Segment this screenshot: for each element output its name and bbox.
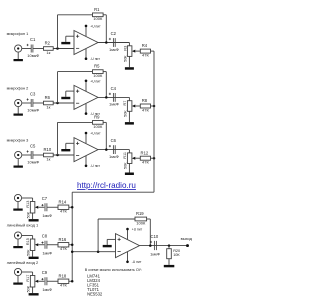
wire R14 to bus xyxy=(69,206,72,208)
svg-text:100К: 100К xyxy=(93,16,103,21)
svg-text:10мкФ: 10мкФ xyxy=(27,159,39,164)
ground bar under R20 xyxy=(164,265,175,267)
output node ch3 xyxy=(105,148,108,151)
svg-text:47К: 47К xyxy=(60,209,67,214)
svg-text:C1: C1 xyxy=(30,37,36,42)
DA3 plus input marker xyxy=(76,142,79,145)
resistor R20 body xyxy=(167,249,172,259)
bus horizontal under URL xyxy=(72,191,154,193)
DA2 plus input marker xyxy=(76,90,79,93)
wire non-inverting input ch2 xyxy=(66,90,74,92)
potentiometer R11 body xyxy=(127,153,131,164)
wire R6 to op-amp inverting input xyxy=(53,102,74,104)
DA4 plus input marker xyxy=(118,238,121,241)
svg-text:50К: 50К xyxy=(26,285,30,292)
DA1 +U node xyxy=(85,25,88,28)
DA3 negative supply pin xyxy=(85,156,87,166)
line-input bus vertical xyxy=(71,192,73,281)
resistor R12 xyxy=(140,156,150,160)
resistor R8 xyxy=(140,104,150,108)
wire R15 bottom to ground xyxy=(32,251,34,257)
feedback top wire ch1 xyxy=(58,14,93,16)
wire линейный вход 2 to R15 xyxy=(22,235,33,237)
svg-text:C3: C3 xyxy=(30,92,36,97)
svg-text:47К: 47К xyxy=(142,107,149,112)
connector микрофон 1 xyxy=(15,45,22,52)
R11 wiper arrow xyxy=(132,157,135,160)
svg-text:47К: 47К xyxy=(60,246,67,251)
svg-text:R4: R4 xyxy=(142,43,148,48)
svg-text:C4: C4 xyxy=(111,86,117,91)
wire C8 to R16 xyxy=(47,244,58,246)
wire R11 bottom to ground xyxy=(128,164,130,173)
DA3 -U node xyxy=(85,165,88,168)
wire R8 to bus xyxy=(151,105,155,107)
op-amp DA2 xyxy=(74,85,98,109)
svg-text:R7: R7 xyxy=(123,101,127,106)
svg-text:выход: выход xyxy=(181,236,193,241)
svg-text:100К: 100К xyxy=(93,73,103,78)
C3 polarity plus xyxy=(27,98,29,100)
svg-text:1мкФ: 1мкФ xyxy=(42,251,52,256)
svg-text:R1: R1 xyxy=(94,7,100,12)
wire микрофон 1 to ground xyxy=(17,52,19,59)
C9 polarity plus xyxy=(41,278,43,280)
R17 wiper arrow xyxy=(35,280,38,283)
svg-text:NE5532: NE5532 xyxy=(87,292,103,297)
wire линейный вход 2 to ground xyxy=(17,239,19,246)
C10 polarity plus xyxy=(150,241,152,243)
C7 polarity plus xyxy=(41,204,43,206)
DA1 -U node xyxy=(85,57,88,60)
svg-text:R6: R6 xyxy=(45,95,51,100)
wire микрофон 3 to C5 xyxy=(22,154,31,156)
signal ground bar summing amp xyxy=(103,245,112,247)
wire R13 bottom to ground xyxy=(32,213,34,219)
resistor R1 xyxy=(93,13,104,17)
wire R10 to op-amp inverting input xyxy=(53,154,74,156)
svg-text:50К: 50К xyxy=(27,211,31,218)
svg-text:линейный вход 1: линейный вход 1 xyxy=(7,222,39,227)
bus junction ch2 xyxy=(153,105,156,108)
svg-text:микрофон 3: микрофон 3 xyxy=(7,137,29,142)
signal ground bar ch1 xyxy=(61,42,70,44)
output/feedback node xyxy=(149,244,152,247)
DA4 positive supply pin xyxy=(127,229,129,239)
wire down into R3 xyxy=(128,43,130,46)
wire to signal ground ch3 xyxy=(65,143,67,149)
wire to signal ground ch1 xyxy=(65,36,67,42)
wire линейный вход 1 to ground xyxy=(17,202,19,209)
C8 polarity plus xyxy=(41,242,43,244)
svg-text:R18: R18 xyxy=(59,273,67,278)
svg-text:В схеме можно использовать ОУ:: В схеме можно использовать ОУ: xyxy=(85,268,142,272)
svg-text:47К: 47К xyxy=(142,53,149,58)
wire R7 wiper to R8 xyxy=(135,105,140,107)
feedback wire up summing amp xyxy=(97,219,99,252)
DA2 +U node xyxy=(85,80,88,83)
svg-text:C7: C7 xyxy=(42,196,48,201)
capacitor C9 xyxy=(44,277,46,285)
svg-text:микрофон 2: микрофон 2 xyxy=(7,85,29,90)
output terminal xyxy=(186,244,189,247)
ground under линейный вход 1 xyxy=(13,209,22,211)
wire R17 wiper to C9 xyxy=(38,280,44,282)
node C10/R20 xyxy=(168,244,171,247)
mic summing bus vertical xyxy=(153,51,155,192)
ground under линейный вход 3 xyxy=(13,283,22,285)
wire линейный вход 3 to ground xyxy=(17,276,19,283)
wire R18 to bus xyxy=(69,280,72,282)
capacitor C3 xyxy=(30,99,32,107)
svg-text:R15: R15 xyxy=(26,238,30,245)
resistor R6 xyxy=(44,101,54,105)
wire C9 to R18 xyxy=(47,280,58,282)
op-amp DA1 xyxy=(74,31,98,55)
svg-text:R17: R17 xyxy=(26,275,30,282)
wire R5 to corner xyxy=(103,71,106,73)
wire non-inverting input ch3 xyxy=(66,142,74,144)
bus tee node xyxy=(71,250,74,253)
resistor R2 xyxy=(44,47,54,51)
wire R9 to corner xyxy=(103,121,106,123)
svg-text:R3: R3 xyxy=(123,46,127,51)
ground under микрофон 2 xyxy=(14,114,23,116)
output wire xyxy=(140,245,188,247)
R15 wiper arrow xyxy=(35,243,38,246)
svg-text:линейный вход 2: линейный вход 2 xyxy=(7,260,39,265)
summing wire to inverting input xyxy=(72,251,115,253)
wire линейный вход 3 to R17 xyxy=(22,271,33,273)
R13 wiper arrow xyxy=(35,206,38,209)
svg-text:R11: R11 xyxy=(123,152,127,159)
svg-text:R10: R10 xyxy=(44,147,52,152)
feedback wire down to output summing amp xyxy=(149,219,151,246)
connector микрофон 3 xyxy=(15,151,22,158)
connector линейный вход 2 xyxy=(14,232,21,239)
svg-text:47К: 47К xyxy=(60,283,67,288)
svg-text:R16: R16 xyxy=(59,237,67,242)
svg-text:R8: R8 xyxy=(142,98,148,103)
svg-text:1мкФ: 1мкФ xyxy=(109,47,119,52)
R3 wiper arrow xyxy=(132,50,135,53)
connector линейный вход 1 xyxy=(14,194,21,201)
DA1 negative supply pin xyxy=(85,49,87,59)
svg-text:10К: 10К xyxy=(173,253,180,257)
resistor R4 xyxy=(140,49,150,53)
wire R17 bottom to ground xyxy=(32,287,34,293)
capacitor C1 xyxy=(30,45,32,53)
potentiometer R15 body xyxy=(30,239,34,251)
svg-text:100К: 100К xyxy=(93,124,103,129)
svg-text:1мкФ: 1мкФ xyxy=(109,154,119,159)
connector микрофон 2 xyxy=(15,99,22,106)
potentiometer R13 body xyxy=(30,202,34,214)
capacitor C4 xyxy=(112,93,114,102)
wire down to R20 xyxy=(168,246,170,249)
wire R20 to ground xyxy=(168,259,170,265)
wire R16 to bus xyxy=(69,244,72,246)
signal ground bar ch2 xyxy=(61,97,70,99)
C5 polarity plus xyxy=(27,150,29,152)
C6 polarity plus xyxy=(109,145,111,147)
ground bar under R11 xyxy=(125,173,134,176)
svg-text:C5: C5 xyxy=(30,144,36,149)
resistor R14 xyxy=(58,205,69,209)
wire микрофон 2 to C3 xyxy=(22,102,31,104)
C2 polarity plus xyxy=(109,38,111,40)
bus junction line input 2 xyxy=(71,244,74,247)
capacitor C2 xyxy=(112,38,114,47)
wire R1 to corner xyxy=(103,14,106,16)
resistor R16 xyxy=(58,243,69,247)
capacitor C8 xyxy=(44,241,46,249)
svg-text:100К: 100К xyxy=(136,220,146,225)
wire C7 to R14 xyxy=(47,206,58,208)
feedback wire down to output ch2 xyxy=(105,72,107,98)
wire C3 to R6 xyxy=(33,102,44,104)
C4 polarity plus xyxy=(109,93,111,95)
svg-text:10мкФ: 10мкФ xyxy=(27,53,39,58)
svg-text:50К: 50К xyxy=(124,55,128,62)
R7 wiper arrow xyxy=(132,105,135,108)
svg-text:1к: 1к xyxy=(46,50,50,55)
feedback node summing amp xyxy=(97,250,100,253)
resistor R10 xyxy=(44,153,54,157)
wire op-amp output to C4 and R7 xyxy=(98,96,129,98)
wire to signal ground ch2 xyxy=(65,91,67,97)
feedback wire up from inverting node ch1 xyxy=(57,15,59,49)
svg-text:1к: 1к xyxy=(46,104,50,109)
feedback top wire ch3 xyxy=(58,121,93,123)
wire R13 wiper to C7 xyxy=(38,206,44,208)
signal ground bar ch3 xyxy=(61,149,70,151)
svg-text:C2: C2 xyxy=(111,31,117,36)
DA4 +U node xyxy=(126,228,129,231)
svg-text:50К: 50К xyxy=(124,110,128,117)
svg-text:микрофон 1: микрофон 1 xyxy=(7,31,29,36)
feedback wire up from inverting node ch3 xyxy=(57,122,59,155)
feedback top wire ch2 xyxy=(58,71,93,73)
svg-text:1к: 1к xyxy=(46,156,50,161)
resistor R9 xyxy=(93,121,104,125)
ground under линейный вход 2 xyxy=(13,246,22,248)
svg-text:+U пит: +U пит xyxy=(132,228,143,232)
ground bar under R7 xyxy=(125,122,134,125)
svg-text:+U пит: +U пит xyxy=(90,25,101,29)
feedback wire down to output ch3 xyxy=(105,122,107,149)
svg-text:+U пит: +U пит xyxy=(90,79,101,83)
feedback wire down to output ch1 xyxy=(105,15,107,43)
capacitor C10 xyxy=(153,241,155,250)
DA4 minus input marker xyxy=(118,250,121,252)
ground bar under R3 xyxy=(125,67,134,70)
ground bar under R15 xyxy=(29,257,39,259)
wire R12 to bus xyxy=(151,157,155,159)
DA3 positive supply pin xyxy=(85,133,87,143)
wire to signal ground summing amp xyxy=(106,239,108,245)
bus junction line input 3 xyxy=(71,280,74,283)
resistor R18 xyxy=(58,279,69,283)
svg-text:C8: C8 xyxy=(42,234,48,239)
DA1 plus input marker xyxy=(76,35,79,38)
wire линейный вход 1 to R13 xyxy=(22,197,33,199)
wire into R17 top xyxy=(32,272,34,276)
capacitor C5 xyxy=(30,151,32,159)
DA1 minus input marker xyxy=(76,47,79,49)
wire микрофон 3 to ground xyxy=(17,159,19,166)
DA3 +U node xyxy=(85,132,88,135)
svg-text:47К: 47К xyxy=(142,160,149,165)
wire op-amp output to C2 and R3 xyxy=(98,42,129,44)
C1 polarity plus xyxy=(27,44,29,46)
svg-text:R5: R5 xyxy=(94,64,100,69)
wire non-inverting input summing amp xyxy=(107,238,115,240)
ground under микрофон 1 xyxy=(14,59,23,61)
ground bar under R13 xyxy=(29,219,39,221)
node R6/R5 xyxy=(56,102,59,105)
capacitor C6 xyxy=(112,145,114,154)
svg-text:50К: 50К xyxy=(124,162,128,169)
output node ch1 xyxy=(105,41,108,44)
wire op-amp output to C6 and R11 xyxy=(98,149,129,151)
svg-text:C10: C10 xyxy=(151,234,159,239)
wire микрофон 1 to C1 xyxy=(22,48,31,50)
bus junction ch3 xyxy=(153,157,156,160)
wire into R13 top xyxy=(32,198,34,202)
svg-text:1мкФ: 1мкФ xyxy=(42,287,52,292)
DA2 -U node xyxy=(85,112,88,115)
svg-text:10мкФ: 10мкФ xyxy=(27,107,39,112)
wire R19 to corner xyxy=(147,218,151,220)
svg-text:50К: 50К xyxy=(27,249,31,256)
potentiometer R3 body xyxy=(127,46,131,57)
potentiometer R7 body xyxy=(127,101,131,112)
svg-text:-U пит: -U пит xyxy=(90,164,100,168)
DA3 minus input marker xyxy=(76,154,79,156)
resistor R19 xyxy=(135,217,147,221)
wire down into R7 xyxy=(128,97,130,100)
wire C1 to R2 xyxy=(33,48,44,50)
wire R11 wiper to R12 xyxy=(135,157,140,159)
node R2/R1 xyxy=(56,47,59,50)
wire микрофон 2 to ground xyxy=(17,107,19,114)
svg-text:-U пит: -U пит xyxy=(90,57,100,61)
wire R15 wiper to C8 xyxy=(38,244,44,246)
svg-text:C6: C6 xyxy=(111,138,117,143)
wire R2 to op-amp inverting input xyxy=(53,48,74,50)
wire R7 bottom to ground xyxy=(128,111,130,122)
svg-text:-U пит: -U пит xyxy=(132,260,142,264)
svg-text:1мкФ: 1мкФ xyxy=(42,213,52,218)
svg-text:C9: C9 xyxy=(42,270,48,275)
ground bar under R17 xyxy=(29,293,39,295)
svg-text:1мкФ: 1мкФ xyxy=(109,102,119,107)
node R10/R9 xyxy=(56,154,59,157)
svg-text:R12: R12 xyxy=(141,150,149,155)
DA4 negative supply pin xyxy=(127,252,129,262)
wire R3 wiper to R4 xyxy=(135,50,140,52)
op-amp DA4 xyxy=(116,234,140,258)
DA1 positive supply pin xyxy=(85,26,87,36)
wire C5 to R10 xyxy=(33,154,44,156)
wire R3 bottom to ground xyxy=(128,56,130,67)
DA2 positive supply pin xyxy=(85,81,87,91)
feedback top wire summing amp xyxy=(98,218,135,220)
wire down into R11 xyxy=(128,150,130,153)
wire into R15 top xyxy=(32,236,34,240)
wire non-inverting input ch1 xyxy=(66,35,74,37)
svg-text:1мкФ: 1мкФ xyxy=(150,252,160,257)
feedback wire up from inverting node ch2 xyxy=(57,72,59,103)
svg-text:R14: R14 xyxy=(59,199,67,204)
connector линейный вход 3 xyxy=(14,268,21,275)
wire R4 to bus xyxy=(151,50,155,52)
svg-text:R9: R9 xyxy=(94,115,100,120)
op-amp DA3 xyxy=(74,138,98,162)
potentiometer R17 body xyxy=(30,276,34,288)
svg-text:R2: R2 xyxy=(45,41,51,46)
svg-text:+U пит: +U пит xyxy=(90,132,101,136)
bus junction line input 1 xyxy=(71,206,74,209)
svg-text:R13: R13 xyxy=(26,201,30,208)
svg-text:R19: R19 xyxy=(136,211,144,216)
ground under микрофон 3 xyxy=(14,166,23,168)
DA2 minus input marker xyxy=(76,102,79,104)
svg-text:http://rcl-radio.ru: http://rcl-radio.ru xyxy=(77,181,136,190)
resistor R5 xyxy=(93,70,104,74)
DA4 -U node xyxy=(126,261,129,264)
DA2 negative supply pin xyxy=(85,104,87,114)
output node ch2 xyxy=(105,96,108,99)
capacitor C7 xyxy=(44,203,46,211)
